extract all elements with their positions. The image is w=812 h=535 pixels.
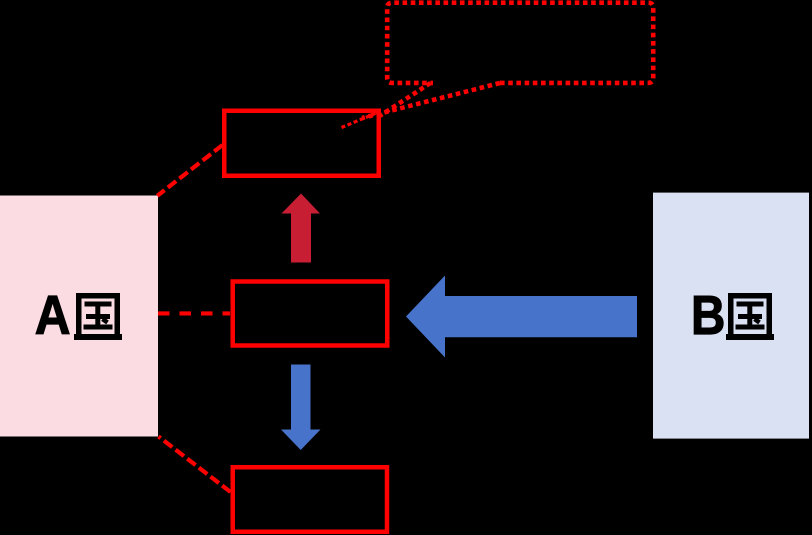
callout tail left line [378, 83, 431, 117]
svg-text:B: B [691, 284, 725, 346]
middle red box [233, 282, 388, 346]
callout tail right line [362, 83, 500, 118]
label A国 [35, 285, 122, 346]
blue left arrow (B to middle box) [406, 276, 637, 358]
svg-text:A: A [35, 285, 71, 346]
blue down arrow [281, 365, 321, 451]
dashed connector A-box to middle box [158, 311, 230, 315]
dotted callout bubble [387, 3, 653, 83]
callout leader dashed line into top box [342, 112, 381, 128]
country box A (pink) [0, 196, 158, 437]
dashed connector A-box corner to bottom box [159, 437, 231, 493]
top red box [224, 111, 379, 176]
dashed connector A-box corner to top box [157, 145, 222, 196]
red up arrow [282, 194, 321, 263]
bottom red box [233, 467, 387, 532]
country box B (light blue) [653, 193, 809, 439]
label B国 [691, 284, 774, 346]
